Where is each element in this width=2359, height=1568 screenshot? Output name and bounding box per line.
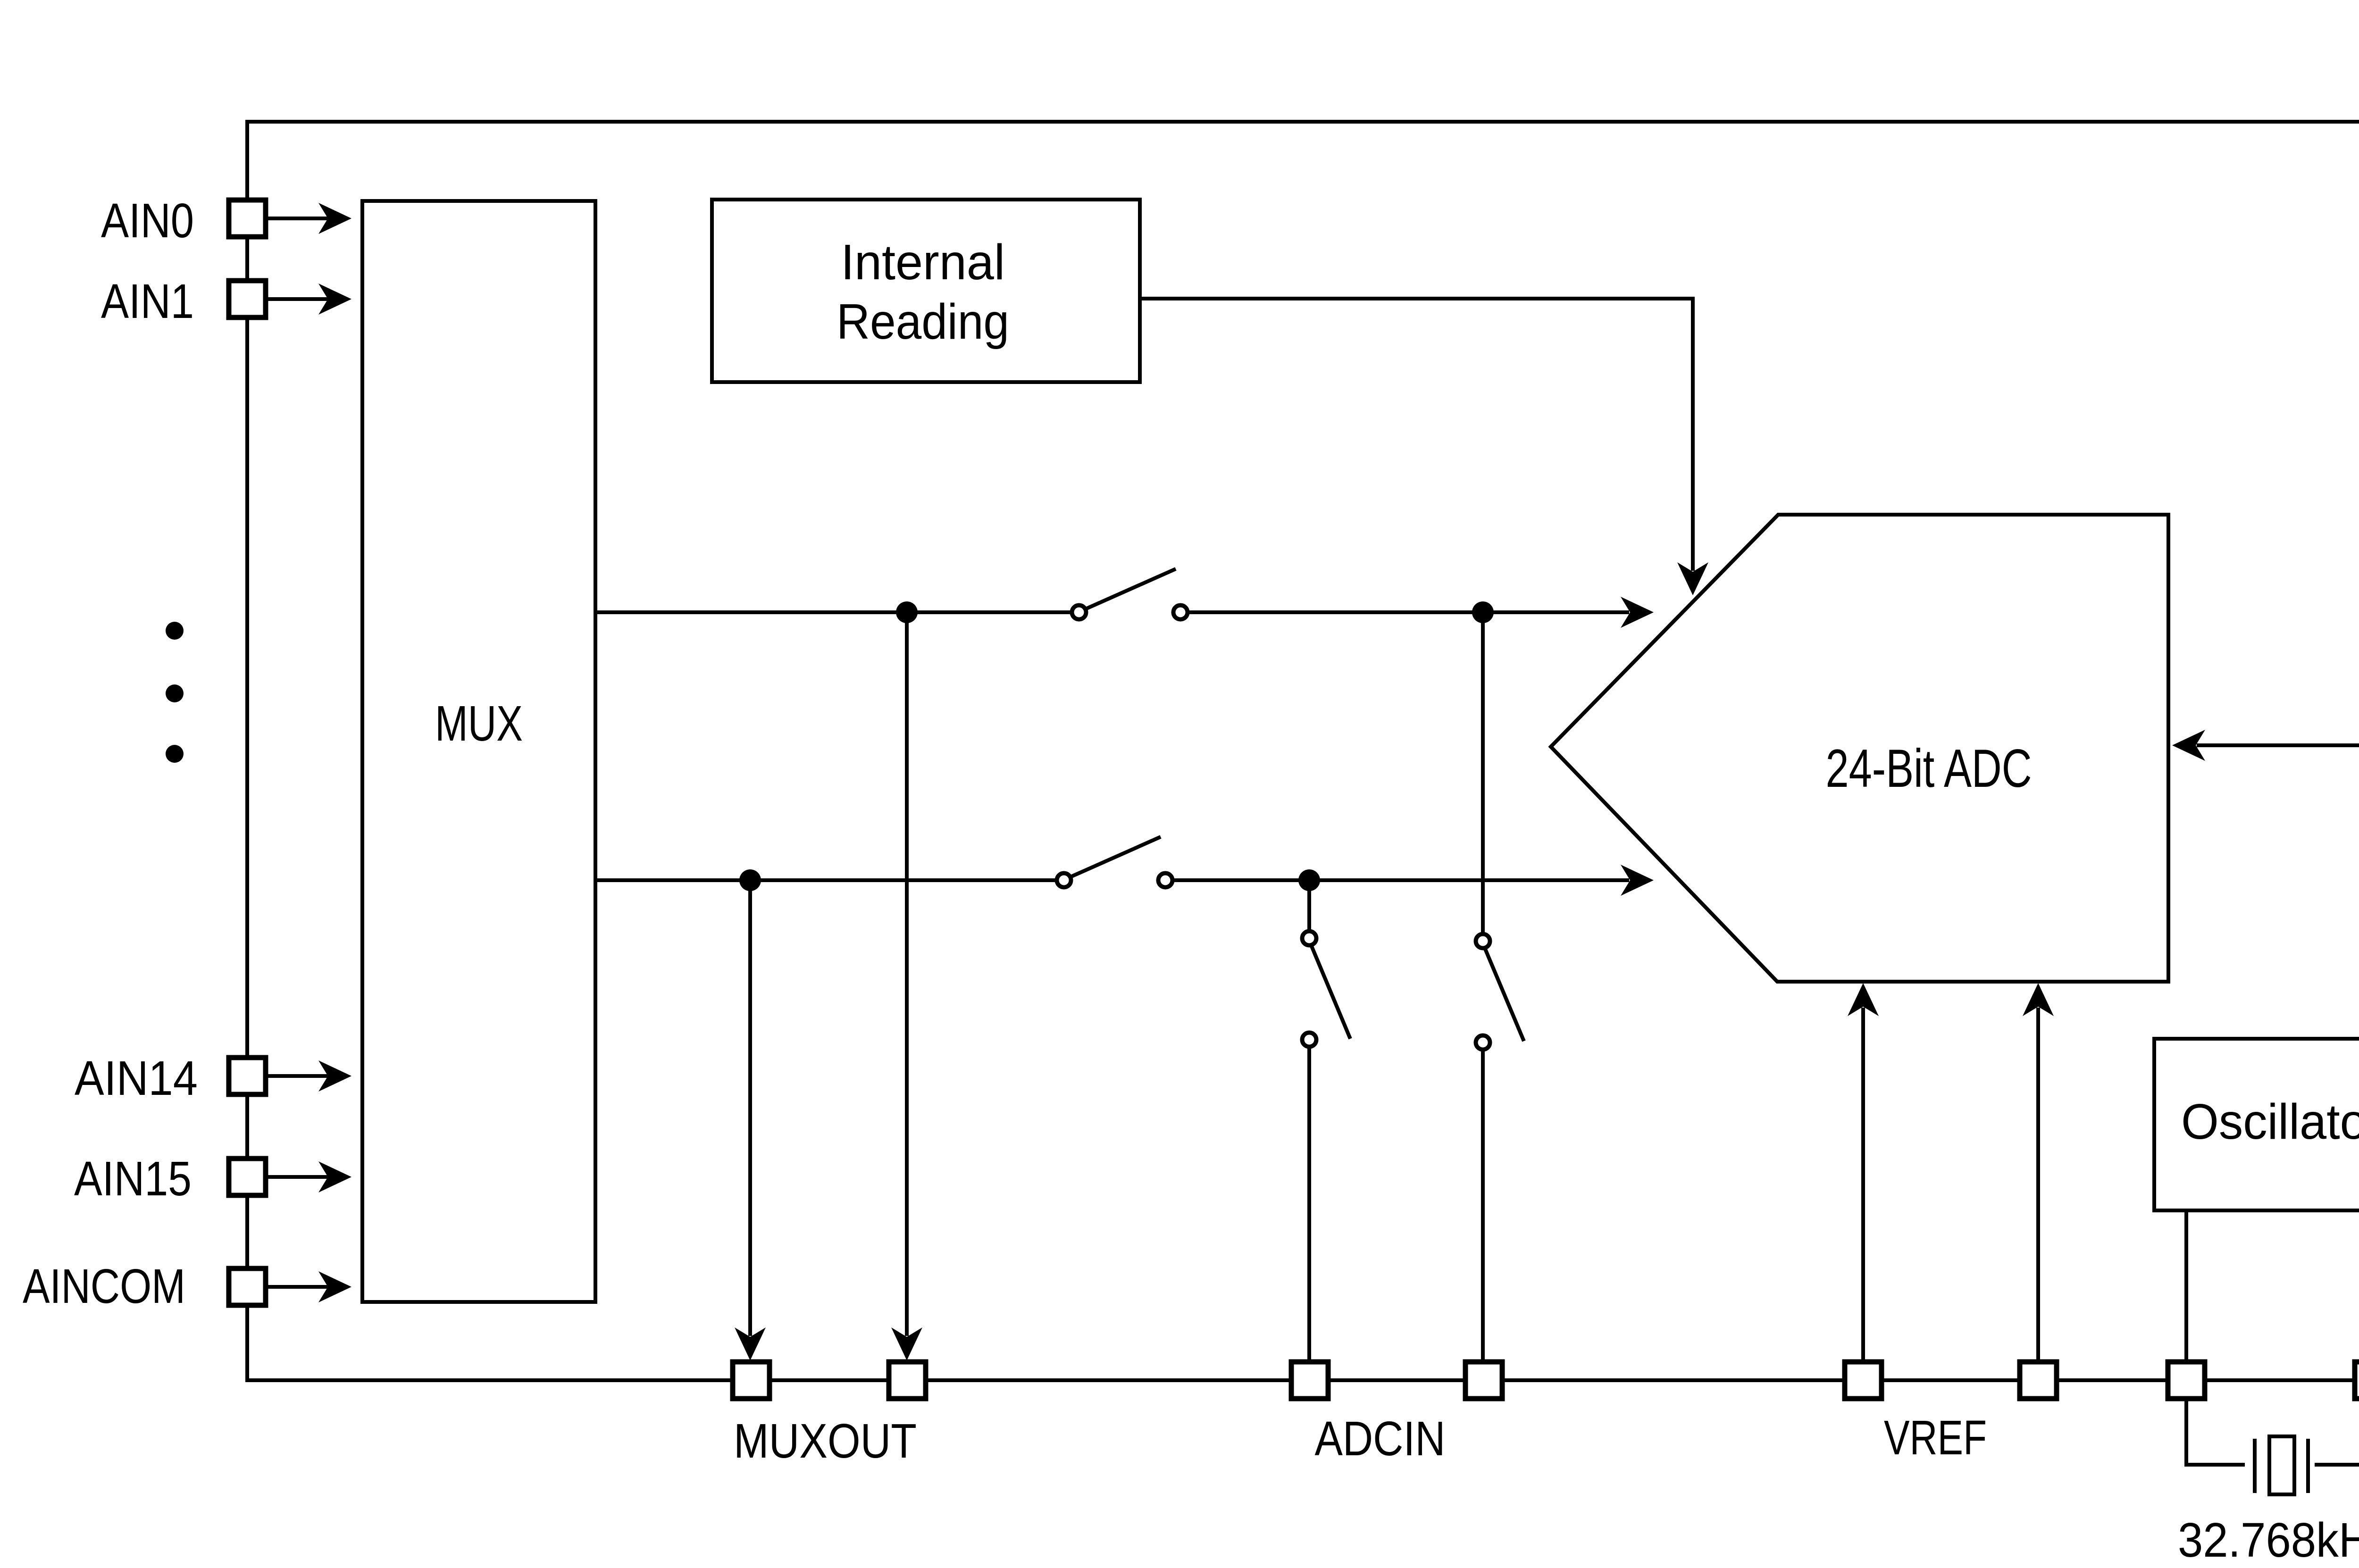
svg-text:24-Bit ADC: 24-Bit ADC — [1826, 739, 2032, 799]
svg-text:AIN0: AIN0 — [101, 193, 194, 248]
svg-text:AIN15: AIN15 — [74, 1151, 192, 1206]
svg-text:ADCIN: ADCIN — [1315, 1411, 1446, 1466]
svg-text:VREF: VREF — [1884, 1410, 1987, 1465]
svg-text:Oscillator: Oscillator — [2181, 1094, 2359, 1150]
svg-text:MUXOUT: MUXOUT — [734, 1414, 917, 1468]
svg-text:MUX: MUX — [435, 696, 523, 751]
svg-text:AIN14: AIN14 — [75, 1051, 198, 1105]
svg-text:Reading: Reading — [837, 294, 1009, 350]
svg-text:AIN1: AIN1 — [101, 274, 194, 328]
svg-text:32.768kHz: 32.768kHz — [2178, 1513, 2359, 1567]
svg-text:AINCOM: AINCOM — [23, 1259, 185, 1313]
svg-text:Internal: Internal — [841, 234, 1005, 290]
